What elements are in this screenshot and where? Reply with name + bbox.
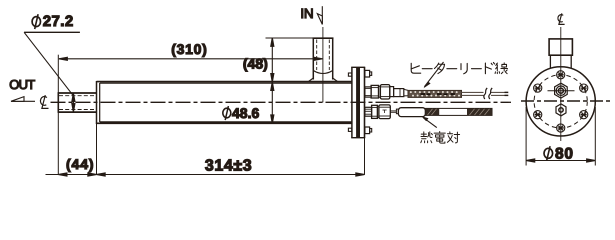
kanji sen (line/wire): [495, 63, 507, 74]
heater gland taper: [404, 89, 408, 96]
left face line: [96, 81, 98, 124]
flange bolt bottom: [365, 127, 370, 134]
heater gland nut1: [371, 85, 378, 98]
kanji netsu: [421, 132, 433, 143]
dimension (44): [46, 174, 97, 176]
end view lower gland hex: [556, 104, 566, 116]
dimension 314±3: [97, 174, 365, 176]
phi27.2 dimension arrows: [72, 94, 74, 111]
main tube inner bottom: [100, 121, 352, 123]
glyph long vowel 2: [447, 68, 457, 70]
thermocouple collar: [396, 109, 398, 114]
main tube inner top: [100, 82, 352, 84]
flange bolt top: [365, 70, 370, 77]
OUT flow arrow: [11, 100, 35, 102]
glyph long vowel 3: [472, 68, 482, 70]
glyph do: [485, 63, 494, 74]
centreline symbol right: [558, 13, 565, 24]
IN flow arrow: [321, 6, 323, 24]
thermocouple gland nut1: [372, 105, 378, 118]
svg-text:IN: IN: [300, 6, 313, 21]
svg-text:(310): (310): [171, 41, 207, 57]
end view bolts: [534, 71, 588, 132]
svg-text:48.6: 48.6: [232, 105, 259, 121]
glyph ri: [461, 63, 467, 73]
left end cap line: [99, 83, 101, 122]
IN pipe bottom fillet arc: [313, 71, 332, 74]
heater label leader: [424, 62, 443, 87]
thermocouple gland body: [379, 105, 390, 119]
thermocouple gland stub: [365, 107, 372, 116]
main tube outer top: [97, 81, 353, 83]
svg-text:OUT: OUT: [9, 77, 35, 92]
kanji den: [434, 132, 445, 144]
IN pipe weld curve right: [333, 78, 338, 82]
svg-text:27.2: 27.2: [43, 13, 74, 30]
svg-text:314±3: 314±3: [205, 158, 252, 175]
IN pipe thread dashed: [316, 40, 318, 71]
kanji tai: [447, 132, 459, 143]
heater gland tip: [394, 89, 404, 97]
dimension phi80: [525, 107, 527, 166]
heater gland stub: [365, 87, 371, 97]
heater gland collar: [390, 87, 394, 97]
bottom extension line left (44): [57, 113, 59, 175]
IN pipe weld curve left: [309, 78, 314, 82]
glyph long vowel 1: [422, 68, 432, 70]
dimension phi48.6: [271, 82, 274, 90]
centreline symbol left: [40, 95, 48, 108]
glyph ta: [434, 63, 444, 73]
svg-text:(44): (44): [66, 156, 95, 172]
wire break symbol: [484, 88, 487, 99]
wire end ticks: [505, 92, 509, 95]
end view bolt circle: [534, 75, 587, 128]
end view IN pipe square: [549, 39, 572, 55]
heater lead wire double line: [462, 92, 509, 95]
thermocouple sheath: [398, 108, 425, 117]
heater gland spacer: [379, 86, 381, 97]
svg-text:80: 80: [555, 146, 574, 163]
flange gasket core: [356, 67, 360, 137]
thermocouple band: [425, 108, 492, 115]
end view flange circle: [526, 67, 595, 136]
glyph hi: [411, 63, 421, 73]
dimension (48): [266, 37, 314, 39]
IN pipe centerline: [322, 27, 324, 102]
thermocouple wire: [390, 110, 396, 112]
main tube outer bottom: [97, 122, 353, 124]
label phi27.2: [32, 14, 40, 29]
end view upper gland hex: [555, 83, 568, 98]
svg-text:(48): (48): [243, 56, 268, 72]
OUT pipe thread dashed lines: [59, 95, 97, 97]
IN pipe: [312, 38, 314, 79]
end view horizontal centerline: [521, 100, 612, 102]
thermocouple label leader: [423, 118, 437, 128]
OUT pipe: [58, 92, 96, 94]
flange: [351, 67, 353, 137]
heater label text: [411, 63, 507, 74]
bottom extension line right: [364, 138, 366, 175]
bottom extension line mid: [96, 124, 98, 175]
dimension (310): [57, 55, 59, 93]
heater braid: [408, 90, 462, 97]
end view vertical centerline: [560, 27, 562, 141]
thermocouple label text: [421, 132, 460, 144]
main centerline: [51, 101, 512, 103]
heater gland body: [380, 85, 389, 99]
thermocouple gland spacer: [377, 106, 379, 117]
